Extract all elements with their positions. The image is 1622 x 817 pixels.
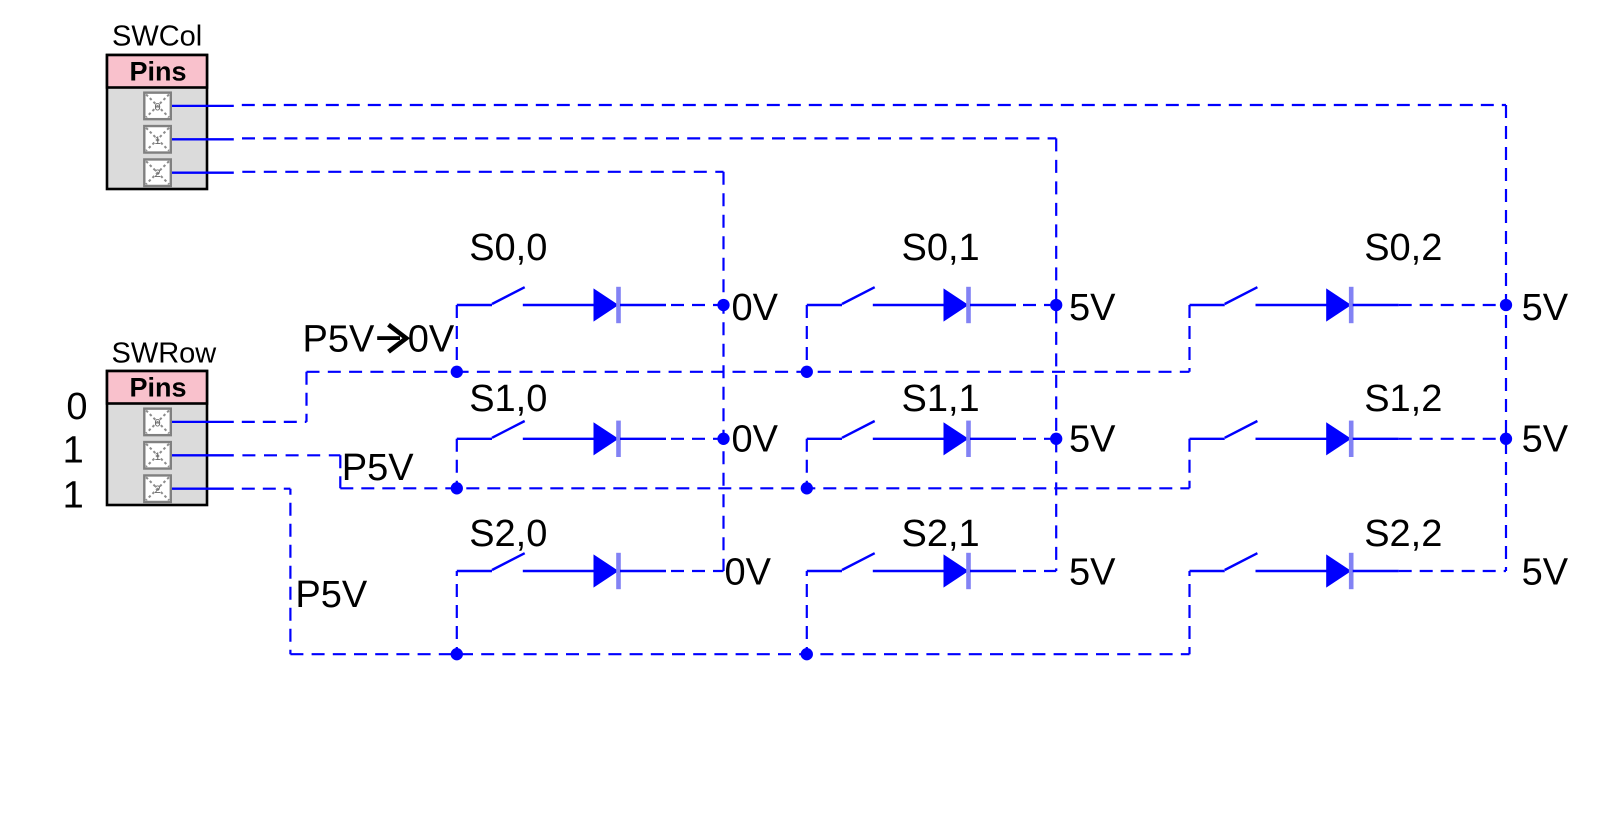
svg-text:1: 1	[154, 135, 160, 147]
svg-text:Pins: Pins	[129, 56, 186, 86]
svg-text:S2,0: S2,0	[469, 513, 547, 555]
svg-text:0: 0	[66, 386, 87, 428]
svg-text:0: 0	[154, 101, 160, 113]
svg-text:5V: 5V	[1522, 552, 1569, 594]
svg-text:S0,1: S0,1	[902, 227, 980, 269]
svg-text:S1,2: S1,2	[1364, 378, 1442, 420]
svg-text:0: 0	[154, 417, 160, 429]
svg-text:0V: 0V	[732, 418, 779, 460]
svg-text:0V: 0V	[408, 319, 455, 361]
svg-text:SWRow: SWRow	[112, 337, 218, 369]
svg-text:S1,1: S1,1	[902, 378, 980, 420]
svg-text:Pins: Pins	[129, 372, 186, 402]
svg-text:P5V: P5V	[295, 574, 367, 616]
svg-text:P5V: P5V	[342, 447, 414, 489]
svg-text:1: 1	[154, 451, 160, 463]
svg-text:1: 1	[63, 475, 84, 517]
svg-text:5V: 5V	[1069, 552, 1116, 594]
svg-text:0V: 0V	[732, 287, 779, 329]
svg-text:1: 1	[63, 429, 84, 471]
svg-text:2: 2	[154, 168, 160, 180]
svg-text:P5V: P5V	[303, 319, 375, 361]
svg-text:5V: 5V	[1069, 287, 1116, 329]
svg-text:2: 2	[154, 484, 160, 496]
svg-text:5V: 5V	[1522, 418, 1569, 460]
svg-text:SWCol: SWCol	[112, 20, 202, 52]
svg-text:5V: 5V	[1522, 287, 1569, 329]
svg-text:0V: 0V	[725, 552, 772, 594]
svg-text:S0,0: S0,0	[469, 227, 547, 269]
svg-text:S2,2: S2,2	[1364, 513, 1442, 555]
svg-text:S0,2: S0,2	[1364, 227, 1442, 269]
svg-text:5V: 5V	[1069, 418, 1116, 460]
svg-text:S1,0: S1,0	[469, 378, 547, 420]
svg-text:S2,1: S2,1	[902, 513, 980, 555]
